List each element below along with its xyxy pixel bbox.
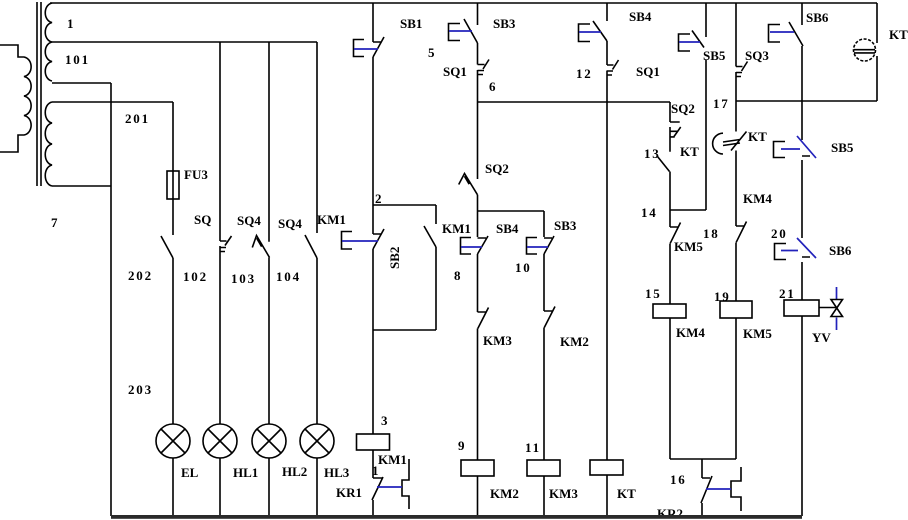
wire KM2 column — [477, 3, 479, 516]
svg-text:SB2: SB2 — [387, 247, 402, 269]
svg-text:HL2: HL2 — [282, 464, 307, 479]
transformer secondary winding 2 — [45, 102, 52, 186]
fuse FU3 — [167, 171, 179, 199]
contact SQ2 second — [670, 122, 681, 137]
svg-text:KM2: KM2 — [490, 486, 519, 501]
contact KM3 interlock — [478, 308, 489, 329]
svg-text:SB5: SB5 — [831, 140, 854, 155]
switch SQ4 NO — [220, 236, 232, 252]
pushbutton SB2 — [342, 229, 385, 249]
svg-text:7: 7 — [51, 215, 58, 230]
transformer secondary winding 1 — [45, 3, 52, 81]
svg-text:EL: EL — [181, 465, 199, 480]
svg-text:2: 2 — [375, 191, 382, 206]
svg-text:203: 203 — [128, 382, 153, 397]
svg-text:KT: KT — [680, 144, 699, 159]
svg-text:15: 15 — [645, 286, 662, 301]
contact KM4 interlock — [736, 222, 747, 243]
svg-text:102: 102 — [183, 269, 208, 284]
svg-text:21: 21 — [779, 286, 796, 301]
svg-text:SQ1: SQ1 — [636, 64, 660, 79]
svg-text:KM3: KM3 — [549, 486, 578, 501]
wire node2 branch top — [373, 204, 436, 206]
valve symbol YV — [819, 287, 843, 330]
svg-text:14: 14 — [641, 205, 658, 220]
svg-text:KM4: KM4 — [676, 325, 705, 340]
coil KM5 — [720, 301, 752, 318]
pushbutton SB5 NC — [774, 136, 817, 158]
svg-text:202: 202 — [128, 268, 153, 283]
svg-text:KT: KT — [617, 486, 636, 501]
wire KM1 column — [372, 3, 374, 516]
svg-text:13: 13 — [644, 146, 661, 161]
wire lamp column 102 — [219, 42, 221, 516]
svg-text:KT: KT — [889, 27, 908, 42]
transformer T primary winding — [0, 45, 31, 152]
pushbutton SB6 top — [769, 22, 804, 46]
pushbutton SB3 mid — [527, 236, 555, 254]
coil KM3 — [527, 460, 560, 476]
svg-text:18: 18 — [703, 226, 720, 241]
wire KM3 column — [543, 211, 545, 516]
svg-text:KR1: KR1 — [336, 485, 362, 500]
contact KM1 selfhold — [424, 226, 436, 247]
wire 1 top rail — [50, 2, 877, 4]
pushbutton SB3 — [449, 19, 478, 43]
contact KM1 aux lamp — [305, 235, 317, 258]
pushbutton SB6 NC — [775, 238, 817, 260]
pushbutton SB1 — [354, 37, 385, 57]
thermal contact KR2 — [701, 467, 741, 511]
pushbutton SB4 mid — [461, 236, 489, 254]
wire branch 8-10 — [478, 210, 545, 212]
svg-text:1: 1 — [372, 463, 379, 478]
switch SQ lamp — [161, 236, 173, 258]
transformer core — [36, 2, 38, 186]
sensor KT symbol — [854, 39, 876, 61]
svg-text:6: 6 — [489, 79, 496, 94]
coil KT — [590, 460, 623, 475]
coil KM2 — [461, 460, 494, 476]
wire lamp column 103 — [268, 42, 270, 516]
svg-text:5: 5 — [428, 45, 435, 60]
bottom bus wire 7 — [111, 515, 802, 519]
contact KM5 interlock — [670, 223, 681, 244]
wire KM4 column — [669, 102, 671, 459]
wire merge KM4 KM5 — [670, 459, 736, 516]
wire secondary1 bottom to rail 7 — [52, 82, 111, 84]
svg-text:SQ2: SQ2 — [485, 161, 509, 176]
svg-text:YV: YV — [812, 330, 831, 345]
svg-text:103: 103 — [231, 271, 256, 286]
svg-text:SQ: SQ — [194, 212, 211, 227]
wire 6 — [478, 101, 671, 103]
svg-text:3: 3 — [381, 413, 388, 428]
wire node14 branch — [670, 209, 706, 211]
wire 101 — [52, 41, 317, 43]
svg-text:101: 101 — [65, 52, 90, 67]
contact SQ1 second — [607, 60, 619, 75]
svg-text:KM1: KM1 — [317, 212, 346, 227]
svg-text:11: 11 — [525, 440, 541, 455]
svg-text:SB6: SB6 — [829, 243, 852, 258]
svg-text:KM2: KM2 — [560, 334, 589, 349]
svg-text:1: 1 — [67, 16, 74, 31]
svg-text:SQ3: SQ3 — [745, 48, 769, 63]
contact SQ2 — [459, 174, 478, 195]
wire lamp column 104 — [316, 42, 318, 516]
wire node2 branch bottom — [373, 329, 436, 331]
contact SQ1 — [478, 60, 490, 75]
svg-text:10: 10 — [515, 260, 532, 275]
svg-text:SB5: SB5 — [703, 48, 726, 63]
svg-text:KM5: KM5 — [674, 239, 703, 254]
svg-text:KM1: KM1 — [378, 452, 407, 467]
svg-text:KM5: KM5 — [743, 326, 772, 341]
svg-text:SQ4: SQ4 — [278, 216, 302, 231]
svg-text:HL3: HL3 — [324, 465, 350, 480]
contact KT instant — [658, 157, 670, 172]
svg-text:SB3: SB3 — [554, 218, 577, 233]
wire KT sensor branch — [876, 3, 878, 101]
wire 17 — [736, 100, 877, 102]
coil KM1 — [357, 434, 390, 450]
svg-text:SQ4: SQ4 — [237, 213, 261, 228]
lamp HL2 — [252, 424, 286, 458]
coil KM4 — [653, 304, 686, 318]
thermal contact KR1 — [372, 459, 409, 509]
svg-text:104: 104 — [276, 269, 301, 284]
wire secondary2 top 201 — [52, 101, 173, 103]
svg-text:SQ2: SQ2 — [671, 101, 695, 116]
svg-text:SB4: SB4 — [496, 221, 519, 236]
wire YV column — [801, 3, 803, 516]
contact KT delayed — [713, 132, 747, 155]
svg-text:20: 20 — [771, 226, 788, 241]
wire secondary2 bottom — [52, 185, 111, 187]
wire KT column — [606, 3, 608, 516]
svg-text:SB1: SB1 — [400, 16, 422, 31]
svg-text:201: 201 — [125, 111, 150, 126]
svg-text:KM3: KM3 — [483, 333, 512, 348]
lamp HL3 — [300, 424, 334, 458]
svg-text:12: 12 — [576, 66, 593, 81]
lamp HL1 — [203, 424, 237, 458]
svg-text:8: 8 — [454, 268, 461, 283]
svg-text:KT: KT — [748, 129, 767, 144]
wire KM1 selfhold column — [435, 205, 437, 330]
lamp EL — [156, 424, 190, 458]
svg-text:FU3: FU3 — [184, 167, 208, 182]
svg-text:9: 9 — [458, 438, 465, 453]
switch SQ4 NC — [252, 236, 269, 258]
wire KM5 column — [735, 3, 737, 459]
coil YV — [784, 300, 819, 316]
svg-text:HL1: HL1 — [233, 465, 258, 480]
wire rail 7 — [110, 83, 112, 516]
pushbutton SB5 top — [679, 31, 705, 52]
wire SB5 column — [705, 3, 707, 210]
pushbutton SB4 top — [579, 21, 608, 42]
svg-text:KM1: KM1 — [442, 221, 471, 236]
svg-text:16: 16 — [670, 472, 687, 487]
contact KM2 interlock — [544, 307, 555, 328]
wire lamp column 202 — [172, 102, 174, 516]
svg-text:SB4: SB4 — [629, 9, 652, 24]
svg-text:KM4: KM4 — [743, 191, 772, 206]
contact SQ3 — [736, 62, 748, 77]
svg-text:17: 17 — [713, 96, 730, 111]
svg-text:SQ1: SQ1 — [443, 64, 467, 79]
svg-text:SB6: SB6 — [806, 10, 829, 25]
svg-text:SB3: SB3 — [493, 16, 516, 31]
